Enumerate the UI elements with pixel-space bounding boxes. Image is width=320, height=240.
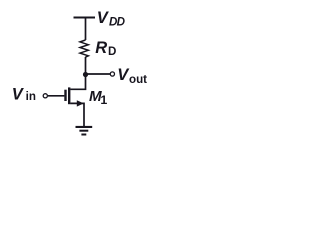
- ground bar 2: [79, 130, 88, 132]
- svg-text:V: V: [97, 9, 110, 27]
- svg-text:R: R: [95, 39, 107, 57]
- terminal Vout open circle: [110, 72, 114, 76]
- svg-text:V: V: [12, 85, 25, 103]
- ground bar 1: [76, 126, 93, 128]
- svg-text:out: out: [129, 73, 147, 86]
- wire VDD bar to resistor top: [85, 18, 87, 41]
- svg-text:1: 1: [100, 93, 107, 107]
- wire drain node to output terminal: [86, 73, 111, 75]
- transistor M1 gate plate: [64, 90, 66, 101]
- wire gate lead: [48, 95, 65, 97]
- resistor RD: [80, 40, 88, 57]
- wire source lead to ground: [70, 103, 84, 126]
- svg-text:D: D: [108, 45, 116, 58]
- VDD supply bar: [74, 16, 96, 18]
- ground bar 3: [81, 134, 86, 136]
- transistor M1 channel bar: [68, 87, 70, 104]
- node drain junction dot: [83, 72, 88, 77]
- terminal Vin open circle: [43, 94, 47, 98]
- svg-text:DD: DD: [109, 15, 126, 28]
- transistor M1 source arrow: [77, 100, 84, 106]
- wire resistor bottom to drain corner and drain lead: [70, 57, 85, 89]
- svg-text:in: in: [26, 90, 36, 103]
